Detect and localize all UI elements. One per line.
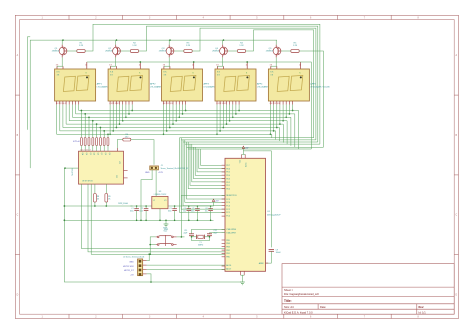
wire crystal gnd bbox=[192, 236, 210, 241]
svg-text:PB4: PB4 bbox=[226, 243, 230, 245]
svg-text:3 8: 3 8 bbox=[216, 64, 218, 66]
svg-text:PB1: PB1 bbox=[226, 253, 230, 255]
svg-text:Sheet: /: Sheet: / bbox=[284, 288, 293, 292]
svg-text:PD5: PD5 bbox=[226, 172, 230, 174]
svg-text:QE: QE bbox=[96, 153, 98, 155]
ground symbol MCU bbox=[240, 282, 245, 285]
svg-text:3 8: 3 8 bbox=[56, 64, 58, 66]
display AFF5 LTS-546AWR bbox=[268, 69, 330, 105]
wire R6 right bbox=[131, 140, 154, 165]
resistor R2 1.2K bbox=[130, 42, 138, 52]
MCU U1 pin stubs bbox=[222, 165, 269, 269]
svg-text:1.2K: 1.2K bbox=[239, 45, 244, 47]
power flag +5V right bbox=[212, 199, 219, 206]
display AFF4 top pins bbox=[216, 62, 247, 69]
svg-text:C9: C9 bbox=[276, 249, 278, 251]
capacitor C4 10u bbox=[183, 206, 191, 220]
svg-text:File: bagweighscale.kicad_sch: File: bagweighscale.kicad_sch bbox=[284, 292, 320, 296]
wire Q1 emitter bbox=[61, 40, 63, 45]
junction U3 gnd bbox=[159, 219, 167, 221]
wire XTAL1 bbox=[192, 229, 226, 233]
capacitor C3 100n bbox=[168, 206, 177, 220]
ground symbol regulator bbox=[164, 220, 169, 231]
svg-text:AFF3: AFF3 bbox=[204, 83, 210, 86]
wire U2 left pin bbox=[65, 167, 79, 169]
resistor R5 1.2K bbox=[291, 42, 299, 52]
wire R1 to Q1 base bbox=[67, 50, 77, 52]
junction C6 bbox=[210, 205, 212, 221]
svg-text:3 8: 3 8 bbox=[110, 74, 113, 76]
MCU U1 ATmega328-P bbox=[225, 154, 281, 275]
wire Q2 collector bbox=[115, 57, 117, 66]
wire left vertical to GND rail bbox=[64, 168, 240, 282]
wire Q1 collector bbox=[61, 57, 63, 66]
display AFF3 LTS-546AWR bbox=[162, 69, 224, 105]
svg-text:ADC7: ADC7 bbox=[226, 267, 231, 270]
svg-text:PD6: PD6 bbox=[226, 168, 230, 170]
resistor R4 1.2K bbox=[237, 42, 245, 52]
svg-text:PC5: PC5 bbox=[226, 199, 230, 201]
wire left aux vertical bbox=[27, 37, 30, 130]
svg-text:3 8: 3 8 bbox=[109, 64, 111, 66]
svg-text:Screw_Terminal_01x02: Screw_Terminal_01x02 bbox=[161, 168, 180, 170]
svg-text:Id: 1/1: Id: 1/1 bbox=[419, 311, 427, 315]
svg-text:AFF1: AFF1 bbox=[97, 83, 103, 86]
svg-text:3 8: 3 8 bbox=[270, 74, 273, 76]
resistor R3 1.2K bbox=[184, 42, 192, 52]
svg-text:GND: GND bbox=[129, 261, 134, 263]
wire SW1 left to gnd bbox=[150, 237, 156, 254]
junction resistor pack taps bbox=[81, 110, 109, 135]
svg-text:10: 10 bbox=[246, 64, 248, 66]
power flag +12V left bbox=[118, 202, 132, 206]
junction emitter rail bbox=[62, 39, 224, 41]
svg-text:HX711_DT: HX711_DT bbox=[124, 270, 135, 272]
junction R8 bbox=[94, 205, 96, 207]
display AFF4 LTS-546AWR bbox=[215, 69, 277, 105]
svg-text:1.2K: 1.2K bbox=[293, 45, 298, 47]
resistor R1 1.2K bbox=[77, 42, 85, 52]
svg-text:Size: A4: Size: A4 bbox=[284, 305, 294, 309]
wire U2 right pins bbox=[124, 170, 128, 178]
wire +5V emitter rail bbox=[30, 40, 277, 168]
resistor R8 bbox=[94, 184, 100, 206]
display AFF3 top pins bbox=[163, 62, 194, 69]
wire DP chain drop bbox=[301, 62, 312, 149]
capacitor C11 22pF bbox=[183, 230, 194, 236]
IC U2 74HC595 bbox=[72, 149, 124, 184]
svg-text:Title:: Title: bbox=[284, 299, 292, 303]
junction AFF3 segment taps bbox=[163, 110, 187, 135]
svg-text:PD7: PD7 bbox=[226, 165, 230, 167]
transistor Q1 bbox=[52, 45, 67, 58]
svg-text:RESET/PC6: RESET/PC6 bbox=[226, 195, 237, 197]
svg-text:AVCC: AVCC bbox=[245, 162, 248, 167]
svg-text:PD3: PD3 bbox=[226, 178, 230, 180]
wire R4 to Q4 base bbox=[228, 50, 238, 52]
svg-text:2N3906: 2N3906 bbox=[159, 51, 167, 53]
svg-text:ATmega328-P: ATmega328-P bbox=[267, 213, 281, 216]
junction J1 gnd bbox=[140, 219, 142, 221]
junction DP chain bbox=[139, 61, 248, 63]
svg-text:4K7: 4K7 bbox=[125, 137, 128, 139]
wire MCU GND down bbox=[241, 275, 245, 282]
wire SW1 right to RESET bbox=[177, 195, 225, 237]
svg-text:3 8: 3 8 bbox=[217, 74, 220, 76]
label HX711_DT bbox=[124, 270, 135, 272]
svg-text:ADC6: ADC6 bbox=[226, 264, 231, 267]
wire R2 to Q2 base bbox=[121, 50, 131, 52]
svg-text:XTAL1/PB6: XTAL1/PB6 bbox=[226, 228, 236, 231]
wire digit select 1 bbox=[85, 24, 320, 144]
wire Q5 collector bbox=[275, 57, 277, 66]
junction AFF2 segment taps bbox=[109, 110, 133, 135]
crystal Y1 16MHz bbox=[192, 235, 210, 247]
transistor Q4 bbox=[212, 45, 227, 58]
svg-text:10: 10 bbox=[299, 64, 301, 66]
svg-text:HX711 SCK: HX711 SCK bbox=[123, 266, 134, 268]
svg-text:QB: QB bbox=[85, 153, 87, 155]
wire resistor pack to U2 bbox=[81, 146, 108, 152]
wire Q3 collector bbox=[168, 57, 170, 66]
svg-text:PC1: PC1 bbox=[226, 212, 230, 214]
svg-text:HX711_DT: HX711_DT bbox=[179, 168, 189, 170]
junction AFF4 segment taps bbox=[216, 110, 240, 135]
svg-text:PD4: PD4 bbox=[226, 175, 230, 177]
display AFF1 LTS-546AWR bbox=[55, 69, 117, 105]
title block bbox=[282, 264, 454, 315]
capacitor C1 100u bbox=[130, 206, 139, 220]
wire Q4 emitter bbox=[222, 40, 224, 45]
junction C5 bbox=[197, 205, 199, 221]
display AFF2 LTS-546AWR bbox=[108, 69, 170, 105]
transistor Q5 bbox=[266, 45, 281, 58]
svg-text:Date:: Date: bbox=[320, 305, 326, 309]
svg-text:3 8: 3 8 bbox=[57, 74, 60, 76]
svg-text:3 8: 3 8 bbox=[270, 64, 272, 66]
resistor pack 47R x8 bbox=[73, 138, 109, 146]
capacitor C12 22pF bbox=[207, 230, 217, 236]
connector J2 HX711 bbox=[123, 257, 144, 276]
connector J1 screw terminal bbox=[150, 165, 179, 170]
wire Q3 emitter bbox=[168, 40, 170, 45]
wire C9 to AREF bbox=[266, 251, 272, 263]
wire U2 SPI 1 bbox=[82, 184, 225, 249]
svg-text:PWR_FLAG: PWR_FLAG bbox=[118, 202, 128, 205]
junction C4 bbox=[188, 205, 190, 221]
wire R3 to Q3 base bbox=[174, 50, 184, 52]
svg-text:OE ST SH DS: OE ST SH DS bbox=[82, 181, 94, 183]
capacitor C6 10u bbox=[205, 206, 213, 220]
svg-text:R8: R8 bbox=[97, 196, 99, 198]
svg-text:XTAL2/PB7: XTAL2/PB7 bbox=[226, 231, 236, 234]
svg-text:AFF2: AFF2 bbox=[150, 83, 156, 86]
svg-text:6 4 2 1 9 10 5: 6 4 2 1 9 10 5 bbox=[216, 103, 226, 105]
junction SW1 right bbox=[181, 236, 183, 238]
wire MCU port bus band bbox=[180, 138, 324, 149]
wire U2 pin9 stub bbox=[116, 148, 118, 151]
label +12V J1 bbox=[158, 172, 163, 174]
label HX711_DT bbox=[179, 168, 189, 170]
capacitor C9 100nF bbox=[269, 249, 282, 254]
svg-text:PC0: PC0 bbox=[226, 216, 230, 218]
svg-text:J2 Screw_Terminal_01x04: J2 Screw_Terminal_01x04 bbox=[123, 257, 144, 259]
label GND J1 bbox=[145, 172, 150, 174]
resistor R6 bbox=[123, 134, 131, 141]
svg-text:QF: QF bbox=[100, 153, 102, 155]
label GND J2 bbox=[129, 261, 134, 263]
wire digit select 4 bbox=[246, 30, 314, 138]
wire J1 +12V bbox=[155, 170, 157, 197]
svg-text:R9: R9 bbox=[108, 196, 110, 198]
svg-text:100n: 100n bbox=[168, 211, 172, 213]
junction AFF5 segment taps bbox=[270, 110, 294, 135]
svg-text:74HC595: 74HC595 bbox=[72, 168, 74, 176]
svg-text:L78M05-TO252: L78M05-TO252 bbox=[154, 194, 167, 196]
svg-text:LTS-546AWR / 5611-BS: LTS-546AWR / 5611-BS bbox=[310, 86, 330, 89]
svg-text:6 4 2 1 9 10 5: 6 4 2 1 9 10 5 bbox=[110, 103, 120, 105]
svg-text:AREF: AREF bbox=[259, 262, 265, 265]
wire AFF3 segment drops bbox=[164, 105, 186, 135]
svg-text:6 4 2 1 9 10 5: 6 4 2 1 9 10 5 bbox=[163, 103, 173, 105]
svg-text:10: 10 bbox=[139, 64, 141, 66]
wire AFF2 segment drops bbox=[110, 105, 132, 135]
resistor R9 bbox=[105, 184, 111, 206]
svg-text:PD1: PD1 bbox=[226, 185, 230, 187]
svg-text:PC2: PC2 bbox=[226, 209, 230, 211]
wire AFF1 segment drops bbox=[57, 105, 79, 135]
power symbol +5V MCU bbox=[242, 146, 249, 151]
svg-text:PB3: PB3 bbox=[226, 247, 230, 249]
wire R5 to Q5 base bbox=[281, 50, 291, 52]
svg-text:PB0: PB0 bbox=[226, 257, 230, 259]
svg-text:6 4 2 1 9 10 5: 6 4 2 1 9 10 5 bbox=[56, 103, 66, 105]
wire resistor pack taps bbox=[81, 111, 108, 138]
svg-text:2N3906: 2N3906 bbox=[52, 51, 60, 53]
switch SW1 Tare bbox=[156, 227, 177, 246]
svg-text:100nF: 100nF bbox=[276, 252, 282, 254]
junction R9 bbox=[105, 205, 107, 207]
wire Q2 emitter bbox=[115, 40, 117, 45]
svg-text:10: 10 bbox=[192, 64, 194, 66]
wire AFF5 segment drops bbox=[270, 105, 292, 135]
wire J1 GND bbox=[141, 170, 152, 221]
svg-text:3 8: 3 8 bbox=[164, 74, 167, 76]
wire U3 ground bbox=[159, 209, 161, 221]
capacitor C5 100n bbox=[191, 206, 200, 220]
svg-text:Rev:: Rev: bbox=[419, 305, 425, 309]
wire GND rail bbox=[64, 219, 213, 221]
svg-text:1.2K: 1.2K bbox=[186, 45, 191, 47]
svg-text:2N3906: 2N3906 bbox=[212, 51, 220, 53]
wire digit select 2 bbox=[139, 26, 318, 142]
wire Q5 emitter bbox=[275, 40, 277, 45]
wire AFF4 segment drops bbox=[217, 105, 239, 135]
wire U2 SPI 2 bbox=[88, 184, 225, 252]
svg-text:AFF4: AFF4 bbox=[257, 83, 263, 86]
svg-text:15 1 2 3 4 5 6 7: 15 1 2 3 4 5 6 7 bbox=[80, 149, 91, 151]
svg-text:PB2: PB2 bbox=[226, 250, 230, 252]
capacitor C2 100n bbox=[139, 206, 148, 220]
svg-text:+12V: +12V bbox=[158, 172, 163, 174]
svg-text:PC4: PC4 bbox=[226, 202, 230, 204]
junction crystal bbox=[191, 236, 211, 238]
svg-text:16MHz: 16MHz bbox=[198, 245, 204, 247]
junction left vertical rails bbox=[64, 205, 66, 221]
display AFF2 top pins bbox=[109, 62, 140, 69]
wire Q4 collector bbox=[222, 57, 224, 66]
label HX711 SCK bbox=[123, 266, 134, 268]
svg-text:PB5: PB5 bbox=[226, 240, 230, 242]
svg-text:3 8: 3 8 bbox=[163, 64, 165, 66]
svg-text:2N3906: 2N3906 bbox=[266, 51, 274, 53]
wire segment bus A-DP bbox=[57, 111, 299, 135]
display AFF5 top pins bbox=[270, 62, 301, 69]
svg-text:1.2K: 1.2K bbox=[132, 45, 137, 47]
transistor Q2 bbox=[105, 45, 120, 58]
wire digit select 3 bbox=[192, 28, 316, 140]
svg-text:PD0: PD0 bbox=[226, 188, 230, 190]
display AFF1 top pins bbox=[56, 62, 87, 69]
svg-text:595: 595 bbox=[117, 175, 119, 178]
svg-text:GND: GND bbox=[145, 172, 150, 174]
junction SW1 gnd bbox=[149, 244, 151, 255]
svg-text:PC3: PC3 bbox=[226, 206, 230, 208]
svg-text:22pF: 22pF bbox=[183, 232, 187, 234]
junction C1 bbox=[136, 205, 138, 221]
svg-text:47R x8: 47R x8 bbox=[73, 141, 80, 143]
svg-text:1.2K: 1.2K bbox=[79, 45, 84, 47]
svg-text:22pF: 22pF bbox=[214, 232, 218, 234]
wire R6 left bbox=[117, 140, 123, 152]
wire MCU VCC up bbox=[242, 151, 272, 248]
junction J2 bbox=[148, 253, 151, 282]
wire +5V rail bbox=[64, 205, 213, 207]
wire U2 SPI 3 bbox=[91, 184, 225, 254]
junction U2 left bbox=[64, 167, 66, 169]
wire digit select 5 bbox=[299, 51, 323, 147]
junction C3 bbox=[174, 205, 176, 221]
svg-text:100u: 100u bbox=[130, 211, 134, 213]
regulator U3 L78M05 bbox=[152, 191, 168, 209]
wire band to MCU pins staircase bbox=[180, 138, 226, 213]
transistor Q3 bbox=[159, 45, 174, 58]
svg-text:KiCad E.D.A. kicad 7.0.0: KiCad E.D.A. kicad 7.0.0 bbox=[284, 311, 313, 315]
junction C2 bbox=[145, 205, 147, 221]
svg-text:10: 10 bbox=[85, 64, 87, 66]
svg-text:6 4 2 1 9 10 5: 6 4 2 1 9 10 5 bbox=[270, 103, 280, 105]
svg-text:2N3906: 2N3906 bbox=[105, 51, 113, 53]
svg-text:PD2: PD2 bbox=[226, 182, 230, 184]
wire decimal point chain bbox=[87, 61, 301, 63]
wire segment staircase to band bbox=[272, 111, 299, 150]
wire J2 pins bbox=[143, 254, 225, 282]
label +5V J2 bbox=[130, 275, 134, 277]
wire XTAL2 bbox=[210, 233, 226, 234]
